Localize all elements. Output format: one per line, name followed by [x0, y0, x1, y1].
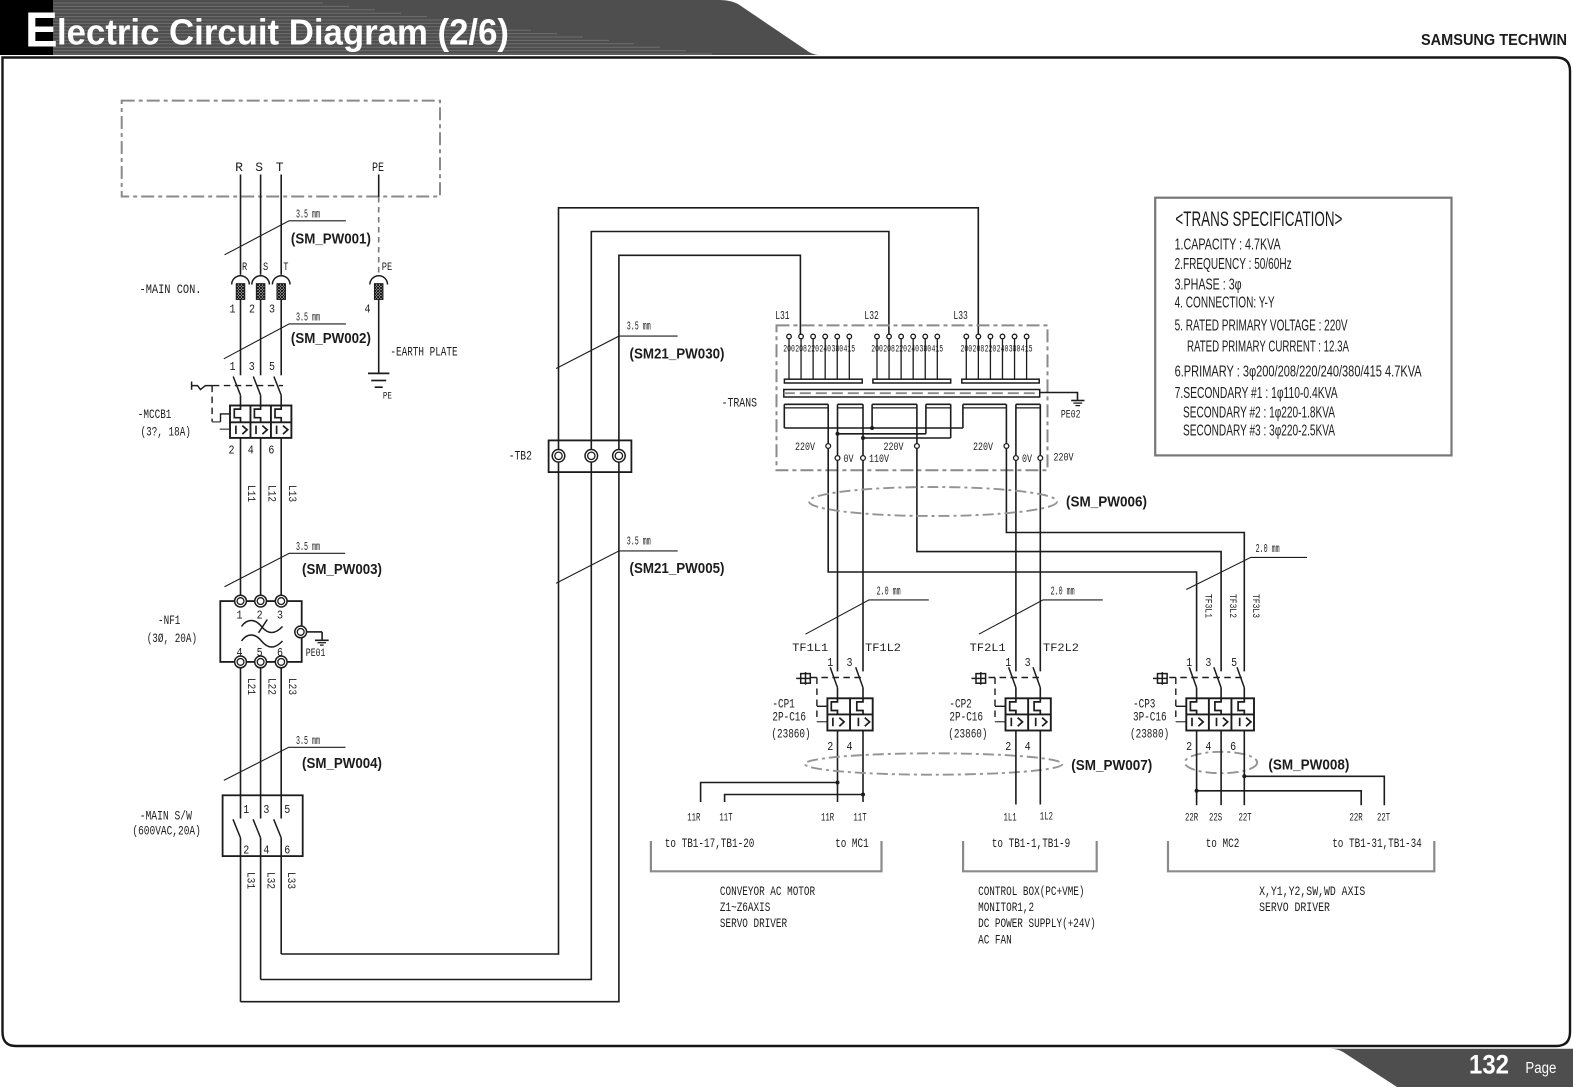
svg-text:SERVO DRIVER: SERVO DRIVER — [720, 916, 787, 931]
description text control box — [978, 884, 1096, 947]
svg-text:L33: L33 — [284, 872, 296, 889]
svg-text:to TB1-1,TB1-9: to TB1-1,TB1-9 — [992, 836, 1070, 851]
svg-text:1.CAPACITY : 4.7KVA: 1.CAPACITY : 4.7KVA — [1175, 237, 1281, 254]
svg-text:Z1~Z6AXIS: Z1~Z6AXIS — [720, 900, 771, 915]
svg-text:4: 4 — [263, 843, 269, 857]
wire 220V phase3 to CP3 pole3 — [1006, 448, 1244, 671]
svg-text:3.5 mm: 3.5 mm — [296, 734, 320, 748]
svg-text:22T: 22T — [1239, 813, 1252, 825]
terminal block TB2 — [549, 440, 632, 472]
breaker CP2 operator symbol — [972, 672, 986, 685]
svg-text:200: 200 — [783, 344, 795, 355]
cable note 2.0mm TF3 pointer — [1186, 542, 1307, 589]
description text axis servo driver — [1259, 884, 1365, 915]
breaker CP3 pole 2 blade — [1214, 667, 1221, 687]
cable bundle ellipse SM_PW007 — [805, 753, 1063, 774]
transformer secondary tap 220V #2 — [884, 404, 920, 454]
breaker CP3 pole 1 blade — [1189, 667, 1196, 687]
breaker MCCB1 label — [138, 407, 191, 439]
breaker CP2 pole 2 blade — [1033, 667, 1040, 687]
svg-text:110V: 110V — [869, 454, 889, 466]
breaker MCCB1 pole 3 blade — [274, 377, 281, 396]
header banner — [0, 0, 818, 55]
svg-text:(SM21_PW005): (SM21_PW005) — [630, 561, 725, 577]
svg-text:(SM_PW001): (SM_PW001) — [291, 232, 371, 248]
svg-text:to TB1-17,TB1-20: to TB1-17,TB1-20 — [665, 836, 755, 851]
noise filter NF1 earth terminal — [295, 626, 322, 640]
switch MAIN S/W pole 2 blade — [253, 819, 261, 979]
svg-text:220V: 220V — [884, 442, 904, 454]
wire CP2 pole2 output 1L2 — [1039, 731, 1041, 805]
contactor MAIN CON pole R (pin 1) — [230, 262, 250, 317]
svg-text:L21: L21 — [244, 678, 256, 695]
svg-text:(SM_PW008): (SM_PW008) — [1268, 757, 1349, 773]
svg-text:L32: L32 — [864, 309, 878, 323]
svg-text:220: 220 — [807, 344, 819, 355]
svg-text:4: 4 — [847, 740, 853, 754]
svg-text:0V: 0V — [844, 454, 854, 466]
svg-text:22R: 22R — [1185, 813, 1198, 825]
wire L12 MCCB1 to NF1 — [261, 438, 277, 595]
breaker CP2 pole 1 blade — [1009, 667, 1016, 687]
group bracket control box — [963, 841, 1097, 871]
svg-text:2.0 mm: 2.0 mm — [1256, 542, 1280, 556]
wire L31 bottom run and riser — [241, 255, 801, 1001]
svg-text:CONVEYOR AC MOTOR: CONVEYOR AC MOTOR — [720, 884, 815, 899]
ground PE02 symbol — [1071, 401, 1084, 406]
svg-text:Page: Page — [1525, 1060, 1556, 1077]
svg-text:S: S — [263, 262, 269, 274]
svg-text:6: 6 — [268, 444, 274, 458]
svg-text:lectric Circuit Diagram (2/: lectric Circuit Diagram (2/6) — [57, 12, 509, 53]
wire 220V phase2 to CP3 pole2 — [917, 448, 1221, 671]
svg-text:L31: L31 — [244, 872, 256, 889]
transformer dashed enclosure — [777, 325, 1048, 470]
breaker CP2 label — [948, 697, 987, 742]
wire L22 NF1 to MAIN S/W — [261, 668, 277, 819]
wire L21 NF1 to MAIN S/W — [241, 668, 257, 819]
svg-text:0V: 0V — [1022, 454, 1032, 466]
svg-text:22T: 22T — [1377, 813, 1390, 825]
breaker CP1 operator symbol — [796, 672, 810, 685]
incoming supply dashed box — [122, 101, 440, 197]
svg-text:to MC2: to MC2 — [1206, 836, 1240, 851]
cable note 3.5mm SM21_PW005 pointer — [556, 534, 678, 583]
svg-text:132: 132 — [1469, 1050, 1509, 1080]
svg-text:L23: L23 — [285, 678, 297, 695]
contactor MAIN CON pole PE (pin 4) — [365, 262, 393, 317]
wire L11 MCCB1 to NF1 — [241, 438, 257, 595]
svg-text:2.0 mm: 2.0 mm — [877, 585, 901, 599]
svg-text:2P-C16: 2P-C16 — [949, 710, 983, 725]
group bracket conveyor drives — [651, 841, 882, 871]
svg-text:(23860): (23860) — [771, 726, 810, 741]
wire 0V to CP1 pole1 (TF1L1) — [837, 460, 839, 671]
wire L13 MCCB1 to NF1 — [281, 438, 297, 595]
wire 220V to CP2 pole2 (TF2L2) — [1039, 460, 1041, 671]
svg-text:2: 2 — [229, 444, 235, 458]
wire CP1 pole1 output 11R — [836, 731, 840, 803]
header title text — [25, 4, 509, 58]
svg-text:L31: L31 — [775, 309, 789, 323]
wire PE drop (dashed) to contactor — [378, 175, 380, 275]
svg-text:-MCCB1: -MCCB1 — [138, 407, 172, 422]
svg-text:1: 1 — [237, 608, 243, 622]
svg-text:5: 5 — [284, 803, 290, 817]
svg-text:R: R — [235, 160, 243, 175]
svg-text:(SM21_PW030): (SM21_PW030) — [630, 346, 725, 362]
svg-text:6: 6 — [277, 646, 283, 660]
svg-text:380: 380 — [919, 344, 931, 355]
wire S drop to contactor — [260, 175, 262, 275]
cable note 2.0mm TF1 pointer — [805, 585, 928, 635]
svg-text:TF3L3: TF3L3 — [1249, 594, 1261, 618]
transformer secondary interconnect wires — [784, 404, 1040, 455]
svg-text:T: T — [276, 160, 284, 175]
svg-text:380: 380 — [831, 344, 843, 355]
breaker CP1 pole 1 blade — [830, 667, 837, 687]
svg-text:220: 220 — [895, 344, 907, 355]
breaker MCCB1 trip linkage hook — [192, 382, 213, 390]
ground PE01 symbol — [315, 640, 329, 645]
svg-text:TF2L1: TF2L1 — [970, 643, 1006, 655]
svg-text:3.PHASE : 3φ: 3.PHASE : 3φ — [1175, 277, 1242, 294]
svg-text:3: 3 — [263, 803, 269, 817]
svg-text:6.PRIMARY : 3φ200/208/220/240/: 6.PRIMARY : 3φ200/208/220/240/380/415 4.… — [1175, 364, 1422, 381]
wire S contactor to MCCB1 — [260, 299, 262, 375]
transformer secondary tap 220V #4 — [1038, 452, 1074, 464]
svg-text:200: 200 — [871, 344, 883, 355]
svg-text:(600VAC,20A): (600VAC,20A) — [132, 823, 200, 838]
transformer secondary tap 110V — [861, 454, 890, 466]
svg-text:(SM_PW007): (SM_PW007) — [1071, 758, 1152, 774]
svg-text:to TB1-31,TB1-34: to TB1-31,TB1-34 — [1332, 836, 1422, 851]
svg-text:7.SECONDARY #1 : 1φ110-0.4KVA: 7.SECONDARY #1 : 1φ110-0.4KVA — [1175, 385, 1338, 402]
svg-text:-TB2: -TB2 — [509, 449, 532, 464]
svg-text:-NF1: -NF1 — [158, 613, 181, 628]
cable note 3.5mm SM_PW001 pointer — [225, 208, 346, 255]
transformer secondary tap 0V #2 — [1014, 454, 1033, 466]
svg-text:AC FAN: AC FAN — [978, 932, 1012, 947]
wire 22T branch to TB1 — [1244, 776, 1384, 805]
svg-text:3P-C16: 3P-C16 — [1133, 710, 1167, 725]
breaker MCCB1 trip linkage dashed — [212, 386, 283, 430]
wire 0V to CP2 pole1 (TF2L1) — [1015, 460, 1017, 671]
breaker CP3 trip linkage dashed — [1169, 678, 1242, 722]
svg-text:11R: 11R — [687, 813, 700, 825]
transformer primary taps group 3 (200-415) — [961, 334, 1033, 379]
svg-text:PE: PE — [383, 391, 392, 402]
svg-text:L22: L22 — [264, 678, 276, 695]
page number text 132 Page — [1469, 1050, 1556, 1080]
svg-text:3.5 mm: 3.5 mm — [296, 540, 320, 554]
svg-text:PE: PE — [382, 262, 393, 274]
svg-text:3: 3 — [269, 303, 275, 317]
breaker CP3 label — [1130, 697, 1169, 742]
wire 110V to CP1 pole2 (TF1L2) — [862, 460, 864, 671]
cable note 3.5mm SM_PW004 pointer — [224, 734, 346, 780]
wire 11R branch to TB1 — [701, 783, 838, 803]
svg-text:2: 2 — [1186, 740, 1192, 754]
svg-text:RATED PRIMARY CURRENT : 12.3A: RATED PRIMARY CURRENT : 12.3A — [1187, 339, 1349, 356]
svg-text:2: 2 — [257, 608, 263, 622]
wire T drop to contactor — [280, 175, 282, 275]
svg-text:CONTROL BOX(PC+VME): CONTROL BOX(PC+VME) — [978, 884, 1084, 899]
svg-text:TF3L2: TF3L2 — [1226, 594, 1238, 618]
transformer secondary tap 0V #1 — [835, 454, 854, 466]
svg-text:3: 3 — [1025, 656, 1031, 670]
switch MAIN S/W body — [223, 795, 303, 857]
earth plate ground symbol — [368, 373, 392, 402]
svg-text:PE: PE — [372, 160, 384, 175]
svg-text:L32: L32 — [264, 872, 276, 889]
svg-text:(3Ø, 20A): (3Ø, 20A) — [147, 631, 197, 646]
noise filter NF1 label — [147, 613, 197, 646]
switch MAIN S/W label — [132, 809, 200, 839]
svg-text:415: 415 — [1021, 344, 1033, 355]
svg-text:5. RATED PRIMARY VOLTAGE : 220: 5. RATED PRIMARY VOLTAGE : 220V — [1175, 318, 1348, 335]
breaker MCCB1 pole 1 blade — [233, 377, 240, 396]
svg-text:240: 240 — [997, 344, 1009, 355]
breaker CP3 pole 3 blade — [1237, 667, 1244, 687]
svg-text:22S: 22S — [1209, 813, 1222, 825]
svg-text:11T: 11T — [719, 813, 732, 825]
svg-text:SECONDARY #2 : 1φ220-1.8KVA: SECONDARY #2 : 1φ220-1.8KVA — [1183, 405, 1335, 422]
svg-text:-MAIN CON.: -MAIN CON. — [140, 282, 202, 297]
svg-text:220V: 220V — [1054, 452, 1074, 464]
svg-text:4: 4 — [1025, 740, 1031, 754]
svg-text:3: 3 — [1205, 656, 1211, 670]
svg-text:6: 6 — [284, 843, 290, 857]
svg-text:415: 415 — [844, 344, 856, 355]
breaker CP3 operator symbol — [1153, 672, 1167, 685]
svg-text:(SM_PW002): (SM_PW002) — [291, 331, 371, 347]
svg-text:(3?, 18A): (3?, 18A) — [141, 424, 191, 439]
group bracket axis servo drivers — [1168, 841, 1434, 871]
svg-text:200: 200 — [961, 344, 973, 355]
cable note 3.5mm SM21_PW030 pointer — [556, 320, 678, 369]
wire R drop to contactor — [240, 175, 242, 275]
cable bundle ellipse SM_PW008 — [1185, 752, 1257, 773]
breaker MCCB1 pole 2 blade — [253, 377, 260, 396]
wire 11T branch to TB1 — [725, 795, 863, 803]
wire PE contactor to earth plate — [378, 299, 380, 373]
svg-text:-MAIN S/W: -MAIN S/W — [140, 809, 192, 824]
svg-text:to MC1: to MC1 — [835, 836, 869, 851]
svg-text:3.5 mm: 3.5 mm — [296, 208, 320, 222]
switch MAIN S/W pole 1 blade — [233, 819, 241, 1001]
svg-text:2.0 mm: 2.0 mm — [1051, 585, 1075, 599]
breaker CP1 body (2P thermal-magnetic) — [827, 698, 872, 730]
wire 220V phase1 to CP3 pole1 — [828, 448, 1196, 671]
breaker CP2 trip linkage dashed — [989, 678, 1040, 722]
svg-text:E: E — [25, 4, 58, 58]
wire CP3 pole2 output 22S — [1220, 731, 1222, 806]
cable bundle ellipse SM_PW006 — [809, 487, 1057, 516]
wire T contactor to MCCB1 — [280, 299, 282, 375]
svg-text:5: 5 — [257, 646, 263, 660]
transformer primary winding bar 2 — [873, 379, 951, 383]
svg-text:208: 208 — [883, 344, 895, 355]
svg-text:380: 380 — [1009, 344, 1021, 355]
svg-text:SAMSUNG TECHWIN: SAMSUNG TECHWIN — [1421, 32, 1567, 49]
transformer secondary tap 220V #3 — [973, 404, 1009, 454]
wire L33 bottom run and riser — [281, 208, 978, 954]
svg-text:4: 4 — [237, 646, 243, 660]
svg-text:1L1: 1L1 — [1004, 813, 1017, 825]
transformer primary winding bar 1 — [784, 379, 862, 383]
breaker CP2 body (2P thermal-magnetic) — [1006, 698, 1051, 730]
wire CP1 pole2 output 11T — [861, 731, 865, 803]
svg-text:T: T — [283, 262, 289, 274]
transformer primary taps group 2 (200-415) — [871, 334, 943, 379]
svg-text:PE01: PE01 — [306, 648, 326, 660]
svg-text:MONITOR1,2: MONITOR1,2 — [978, 900, 1034, 915]
svg-text:S: S — [255, 160, 263, 175]
svg-text:220V: 220V — [973, 442, 993, 454]
svg-text:L13: L13 — [285, 485, 297, 502]
svg-text:11T: 11T — [853, 813, 866, 825]
transformer primary taps group 1 (200-415) — [783, 334, 855, 379]
cable note 3.5mm SM_PW003 pointer — [225, 540, 346, 587]
svg-text:(SM_PW003): (SM_PW003) — [302, 562, 382, 578]
cable note 2.0mm TF2 pointer — [979, 585, 1103, 635]
svg-text:220: 220 — [985, 344, 997, 355]
svg-text:TF1L1: TF1L1 — [792, 643, 828, 655]
svg-text:(23860): (23860) — [948, 726, 987, 741]
svg-text:3: 3 — [249, 360, 255, 374]
cable note 3.5mm SM_PW002 pointer — [224, 311, 346, 359]
svg-text:5: 5 — [269, 360, 275, 374]
svg-text:<TRANS SPECIFICATION>: <TRANS SPECIFICATION> — [1175, 208, 1342, 231]
wire CP3 pole1 output 22R — [1195, 731, 1199, 806]
svg-text:2: 2 — [827, 740, 833, 754]
svg-text:TF2L2: TF2L2 — [1043, 643, 1079, 655]
svg-text:R: R — [242, 262, 248, 274]
svg-text:TF1L2: TF1L2 — [865, 643, 901, 655]
svg-text:X,Y1,Y2,SW,WD AXIS: X,Y1,Y2,SW,WD AXIS — [1259, 884, 1365, 899]
transformer core — [784, 390, 1040, 398]
svg-text:(SM_PW006): (SM_PW006) — [1066, 495, 1147, 511]
trans specification box — [1155, 198, 1451, 456]
breaker MCCB1 body (3P thermal-magnetic) — [230, 406, 291, 438]
svg-text:3.5 mm: 3.5 mm — [627, 320, 651, 334]
svg-text:4: 4 — [248, 444, 254, 458]
svg-text:L11: L11 — [244, 485, 256, 502]
svg-text:240: 240 — [819, 344, 831, 355]
svg-text:220V: 220V — [795, 442, 815, 454]
wire CP2 pole1 output 1L1 — [1015, 731, 1017, 805]
wire 22R branch to TB1 — [1197, 791, 1362, 805]
svg-text:208: 208 — [973, 344, 985, 355]
svg-text:-EARTH PLATE: -EARTH PLATE — [390, 344, 457, 359]
breaker CP1 label — [771, 697, 810, 742]
svg-text:(SM_PW004): (SM_PW004) — [302, 756, 382, 772]
svg-text:1L2: 1L2 — [1040, 812, 1053, 824]
transformer secondary winding bars — [784, 404, 1040, 408]
svg-text:3.5 mm: 3.5 mm — [627, 534, 651, 548]
svg-text:415: 415 — [932, 344, 944, 355]
svg-text:3: 3 — [277, 608, 283, 622]
description text conveyor servo driver — [720, 884, 815, 931]
breaker CP3 body (3P thermal-magnetic) — [1186, 698, 1254, 730]
svg-text:2: 2 — [1005, 740, 1011, 754]
breaker CP1 pole 2 blade — [856, 667, 863, 687]
svg-text:1: 1 — [230, 360, 236, 374]
svg-text:5: 5 — [1231, 656, 1237, 670]
svg-text:-TRANS: -TRANS — [722, 396, 758, 411]
svg-text:2P-C16: 2P-C16 — [772, 710, 806, 725]
svg-text:1: 1 — [230, 303, 236, 317]
svg-text:L33: L33 — [953, 309, 967, 323]
wire L23 NF1 to MAIN S/W — [281, 668, 297, 819]
svg-text:2: 2 — [243, 843, 249, 857]
svg-text:SERVO DRIVER: SERVO DRIVER — [1259, 900, 1330, 915]
svg-text:DC POWER SUPPLY(+24V): DC POWER SUPPLY(+24V) — [978, 916, 1096, 931]
page number banner — [1330, 1049, 1573, 1087]
noise filter NF1 body — [220, 595, 301, 668]
wire L32 bottom run and riser — [261, 232, 889, 980]
transformer primary winding bar 3 — [962, 379, 1039, 383]
wire R contactor to MCCB1 — [240, 299, 242, 375]
wire core to PE02 ground — [1040, 393, 1077, 400]
transformer secondary tap 220V #1 — [795, 404, 831, 454]
breaker CP1 trip linkage dashed — [810, 678, 861, 722]
svg-text:1: 1 — [243, 803, 249, 817]
svg-text:2.FREQUENCY : 50/60Hz: 2.FREQUENCY : 50/60Hz — [1175, 256, 1292, 273]
svg-text:4: 4 — [365, 303, 371, 317]
svg-text:2: 2 — [249, 303, 255, 317]
switch MAIN S/W pole 3 blade — [274, 819, 282, 954]
svg-text:SECONDARY #3 : 3φ220-2.5KVA: SECONDARY #3 : 3φ220-2.5KVA — [1183, 423, 1335, 440]
svg-text:208: 208 — [795, 344, 807, 355]
svg-text:4. CONNECTION: Y-Y: 4. CONNECTION: Y-Y — [1175, 295, 1275, 312]
contactor MAIN CON pole S (pin 2) — [249, 262, 269, 317]
svg-text:TF3L1: TF3L1 — [1201, 594, 1213, 618]
svg-text:240: 240 — [907, 344, 919, 355]
svg-text:22R: 22R — [1350, 813, 1363, 825]
svg-text:3.5 mm: 3.5 mm — [296, 311, 320, 325]
wire CP3 pole3 output 22T — [1242, 731, 1246, 806]
svg-text:3: 3 — [847, 656, 853, 670]
svg-text:11R: 11R — [821, 813, 834, 825]
svg-text:PE02: PE02 — [1061, 409, 1081, 421]
contactor MAIN CON pole T (pin 3) — [269, 262, 290, 317]
svg-text:L12: L12 — [264, 485, 276, 502]
svg-text:(23880): (23880) — [1130, 726, 1169, 741]
